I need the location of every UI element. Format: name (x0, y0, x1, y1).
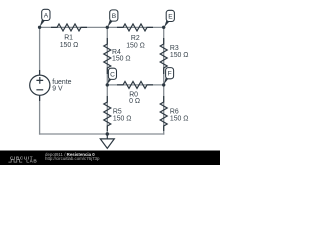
svg-text:B: B (112, 13, 117, 20)
svg-text:9 V: 9 V (52, 85, 63, 92)
svg-text:150 Ω: 150 Ω (170, 52, 189, 59)
svg-text:150 Ω: 150 Ω (126, 42, 145, 49)
svg-text:0 Ω: 0 Ω (129, 98, 140, 105)
svg-text:F: F (168, 71, 172, 78)
svg-text:LAB: LAB (26, 159, 37, 164)
svg-text:150 Ω: 150 Ω (60, 42, 79, 49)
svg-text:150 Ω: 150 Ω (170, 115, 189, 122)
svg-text:150 Ω: 150 Ω (113, 115, 132, 122)
svg-text:http://circuitlab.com/c76j73p: http://circuitlab.com/c76j73p (45, 156, 100, 161)
svg-text:150 Ω: 150 Ω (112, 56, 131, 63)
svg-text:C: C (110, 71, 115, 78)
svg-text:R1: R1 (64, 35, 73, 42)
svg-text:E: E (168, 13, 173, 20)
svg-text:R2: R2 (131, 35, 140, 42)
svg-text:A: A (44, 12, 49, 19)
